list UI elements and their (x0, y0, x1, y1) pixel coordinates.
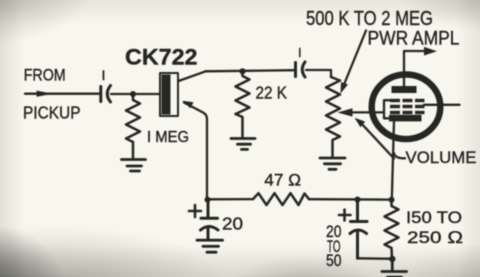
svg-text:20: 20 (222, 213, 243, 233)
transistor Q1 CK722 (160, 73, 178, 116)
tube grid dashes (390, 99, 425, 114)
potentiometer 500K-2MEG volume (326, 77, 340, 157)
arrow on input wire (37, 91, 54, 97)
svg-text:CK722: CK722 (125, 44, 198, 69)
svg-text:I MEG: I MEG (147, 129, 189, 146)
resistor R2 22 K (236, 71, 250, 137)
wire cap to base (111, 93, 160, 95)
resistor R1 1 MEG (126, 94, 140, 159)
capacitor C1 input coupling (101, 86, 111, 103)
tube plate (392, 86, 417, 93)
ground (pot) (320, 158, 345, 169)
svg-text:VOLUME: VOLUME (406, 148, 477, 167)
ground (1 MEG) (122, 160, 146, 172)
svg-text:I: I (102, 67, 106, 83)
node emitter bypass (205, 197, 211, 203)
svg-text:FROM: FROM (24, 65, 66, 84)
node 22K rail (239, 68, 245, 74)
svg-text:250 Ω: 250 Ω (407, 228, 463, 247)
svg-text:PICKUP: PICKUP (23, 102, 81, 122)
wire bottom rail left (208, 198, 254, 200)
label + (20uF) (189, 205, 201, 217)
ground (22 K) (231, 139, 255, 150)
tube V1 envelope (372, 75, 441, 140)
svg-text:22 K: 22 K (256, 82, 288, 102)
capacitor C2 coupling (296, 62, 306, 77)
ground (20uF cap) (197, 240, 223, 252)
wire cap2 to pot top (306, 70, 331, 77)
node cathode rail (389, 197, 395, 203)
wire input from pickup (25, 93, 100, 95)
resistor R4 150-250 ohm (385, 200, 399, 259)
svg-text:PWR AMPL: PWR AMPL (368, 28, 460, 49)
wire top rail (206, 70, 295, 71)
label + (20-50) (339, 210, 351, 221)
tube grid bracket (384, 100, 390, 118)
tube cathode bar (389, 115, 422, 122)
capacitor C4 20-50uF (350, 200, 367, 259)
node base junction (130, 91, 136, 97)
capacitor C3 20uF bypass (201, 200, 219, 240)
node resistor bottom (389, 256, 395, 262)
svg-text:47 Ω: 47 Ω (264, 171, 301, 189)
tube grid lead right (424, 104, 460, 106)
wire bottom rail right (309, 198, 392, 201)
wire emitter (184, 103, 207, 200)
wire cap4 bottom to resistor bottom (358, 257, 393, 260)
leader arrow volume to wiper (355, 118, 395, 159)
wiper arrow of pot (338, 108, 385, 116)
wire collector (179, 71, 207, 81)
leader arrow label to pot (341, 31, 367, 94)
arrow tube output to PWR AMPL (424, 47, 437, 56)
resistor R3 47 ohm (253, 193, 309, 205)
node bypass 20-50 (355, 197, 361, 203)
svg-text:50: 50 (326, 252, 342, 270)
tube plate lead (404, 51, 428, 86)
arrow emitter (183, 101, 194, 109)
svg-text:I: I (298, 45, 302, 60)
leader tick volume (394, 153, 405, 158)
tube cathode lead down (392, 121, 394, 200)
ground (cathode circuit) (382, 259, 407, 277)
svg-text:500 K TO 2 MEG: 500 K TO 2 MEG (306, 7, 433, 30)
label 20 TO 50 (326, 223, 342, 270)
svg-text:I50 TO: I50 TO (406, 209, 462, 227)
